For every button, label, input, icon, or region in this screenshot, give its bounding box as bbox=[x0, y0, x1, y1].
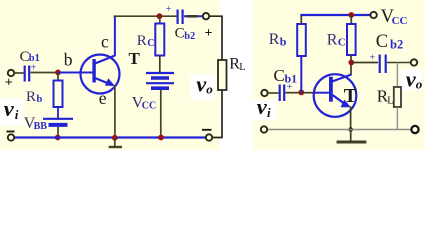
svg-text:i: i bbox=[15, 107, 19, 122]
white patch behind left vi label bbox=[0, 98, 24, 126]
transistor T circle bbox=[81, 55, 120, 94]
emitter wire down bbox=[114, 86, 116, 138]
wire node up to Rb right bbox=[300, 56, 302, 92]
wire input to Cb1 right bbox=[268, 92, 279, 94]
resistor RL bbox=[218, 60, 227, 90]
input terminal right circuit bbox=[261, 90, 267, 96]
svg-text:c: c bbox=[101, 32, 109, 52]
output terminal top right bbox=[411, 59, 417, 65]
junction dot emitter/rail bbox=[112, 135, 118, 141]
svg-text:+: + bbox=[205, 26, 213, 41]
svg-text:b2: b2 bbox=[390, 37, 403, 51]
svg-text:C: C bbox=[147, 38, 154, 49]
svg-text:e: e bbox=[99, 88, 107, 108]
svg-text:R: R bbox=[269, 31, 280, 48]
emitter wire down right bbox=[350, 107, 352, 130]
svg-text:v: v bbox=[4, 96, 15, 121]
resistor RC right bbox=[347, 24, 356, 55]
label Cb1 bbox=[20, 49, 40, 65]
wire VBB to bottom rail bbox=[57, 127, 59, 138]
junction dot collector node right bbox=[348, 60, 354, 66]
left schematic background bbox=[0, 0, 220, 150]
svg-text:CC: CC bbox=[392, 15, 408, 27]
svg-text:R: R bbox=[137, 33, 147, 49]
capacitor Cb1 bbox=[25, 66, 30, 82]
svg-text:i: i bbox=[267, 105, 271, 120]
svg-text:b: b bbox=[64, 50, 73, 70]
collector diagonal right bbox=[332, 75, 351, 82]
wire node to base right bbox=[301, 92, 314, 94]
label RC right bbox=[327, 31, 346, 48]
svg-text:T: T bbox=[129, 49, 141, 68]
top rail right bbox=[300, 14, 370, 16]
svg-text:BB: BB bbox=[34, 121, 48, 132]
junction dot VCC/rail bbox=[158, 135, 164, 141]
wire Cb2 to output terminal bbox=[184, 13, 203, 19]
svg-text:+: + bbox=[287, 82, 293, 93]
junction dot base node right bbox=[298, 90, 304, 96]
wire terminal to RL corner bbox=[209, 16, 222, 60]
label Rb right bbox=[269, 31, 287, 49]
white patch behind left vo label bbox=[191, 74, 216, 100]
svg-text:R: R bbox=[26, 89, 36, 105]
wire collector node to Cb2 right bbox=[351, 62, 378, 64]
bottom rail wire bbox=[14, 136, 206, 138]
battery VBB bbox=[43, 119, 73, 125]
label vi bbox=[4, 96, 19, 122]
svg-text:C: C bbox=[175, 26, 185, 42]
resistor RC bbox=[155, 24, 164, 56]
svg-text:o: o bbox=[206, 82, 213, 97]
svg-text:+: + bbox=[370, 53, 376, 64]
svg-text:+: + bbox=[166, 4, 172, 15]
collector wire up bbox=[114, 16, 116, 56]
ground tick below emitter junction bbox=[109, 138, 122, 147]
wire node b down to Rb bbox=[57, 73, 59, 81]
label VCC bbox=[132, 95, 156, 112]
wire RL to bottom terminal bbox=[212, 90, 222, 138]
output terminal top bbox=[203, 13, 209, 19]
label vo bbox=[196, 71, 213, 96]
wire VCC to bottom rail bbox=[160, 90, 162, 138]
bottom-left terminal (-) bbox=[8, 134, 14, 140]
label VCC right bbox=[381, 7, 408, 27]
transistor T right base bar bbox=[329, 77, 333, 102]
resistor Rb bbox=[54, 81, 63, 108]
svg-text:b: b bbox=[280, 35, 287, 49]
minus sign at bottom-left terminal bbox=[7, 131, 15, 133]
label Cb1 right bbox=[274, 66, 298, 86]
wire Cb2 to output terminal right bbox=[387, 62, 411, 64]
gutter background bbox=[220, 0, 253, 150]
input terminal (left, +) bbox=[8, 70, 14, 76]
wire Cb1 to node b bbox=[31, 72, 57, 74]
emitter diagonal with arrow bbox=[95, 78, 115, 86]
svg-text:o: o bbox=[416, 77, 423, 92]
wire RL to bottom wire right bbox=[396, 107, 398, 130]
svg-text:C: C bbox=[376, 32, 388, 52]
svg-text:C: C bbox=[274, 66, 285, 85]
wire input to Cb1 bbox=[14, 72, 23, 74]
capacitor Cb2 bbox=[178, 10, 183, 25]
svg-text:+: + bbox=[5, 76, 13, 91]
wire rail down to RC right bbox=[350, 15, 352, 24]
svg-text:R: R bbox=[327, 31, 338, 48]
junction dot top rail / RC bbox=[157, 13, 163, 19]
right schematic background bbox=[253, 0, 425, 150]
capacitor Cb1 right bbox=[280, 85, 285, 102]
wire RC down to collector node right bbox=[350, 55, 352, 76]
svg-text:b2: b2 bbox=[184, 31, 195, 42]
label Cb2 right bbox=[376, 32, 403, 52]
svg-text:b: b bbox=[37, 94, 43, 105]
minus sign at output bottom bbox=[202, 129, 212, 131]
emitter diagonal with arrow right bbox=[333, 95, 351, 107]
collector diagonal bbox=[95, 56, 115, 64]
wire RC to VCC battery bbox=[159, 56, 161, 73]
transistor T right circle bbox=[314, 74, 357, 117]
node b junction dot bbox=[55, 70, 61, 76]
output terminal bottom right bbox=[411, 126, 418, 133]
wire Rb to VBB bbox=[57, 107, 59, 118]
label RL bbox=[229, 55, 245, 73]
top rail wire bbox=[114, 15, 177, 17]
ground symbol right bbox=[337, 130, 367, 143]
junction dot VBB/rail bbox=[55, 135, 61, 141]
wire base inside circle right bbox=[314, 92, 329, 94]
wire Rb to top rail right bbox=[300, 15, 302, 24]
wire node b to base bbox=[58, 72, 93, 74]
capacitor Cb2 right bbox=[380, 55, 386, 74]
junction dot RC top right bbox=[348, 12, 354, 18]
svg-text:L: L bbox=[239, 62, 245, 73]
battery VCC bbox=[146, 73, 174, 88]
wire RL branch down right bbox=[396, 63, 398, 88]
label VBB bbox=[24, 115, 47, 132]
label vo right bbox=[406, 66, 423, 91]
white patch behind right vo label bbox=[401, 70, 422, 91]
junction dot emitter/bottom wire right bbox=[348, 127, 353, 132]
transistor T base bar bbox=[92, 59, 95, 83]
wire Cb1 to node right bbox=[286, 92, 300, 94]
label Rb bbox=[26, 89, 43, 105]
svg-text:T: T bbox=[344, 86, 357, 107]
svg-text:L: L bbox=[387, 96, 393, 107]
resistor RL right bbox=[394, 87, 401, 107]
label Cb2 bbox=[175, 26, 196, 42]
svg-text:CC: CC bbox=[142, 100, 156, 111]
output terminal bottom bbox=[206, 134, 212, 140]
label RL right bbox=[377, 87, 394, 107]
svg-text:C: C bbox=[338, 36, 346, 48]
VCC terminal right bbox=[370, 12, 376, 18]
bottom wire right bbox=[268, 129, 412, 131]
resistor Rb right bbox=[297, 24, 306, 56]
wire junction down to RC bbox=[159, 16, 161, 23]
label RC bbox=[137, 33, 155, 49]
white patch behind right vi label bbox=[251, 100, 276, 121]
label vi right bbox=[257, 94, 271, 120]
bottom-left terminal right bbox=[261, 126, 267, 132]
